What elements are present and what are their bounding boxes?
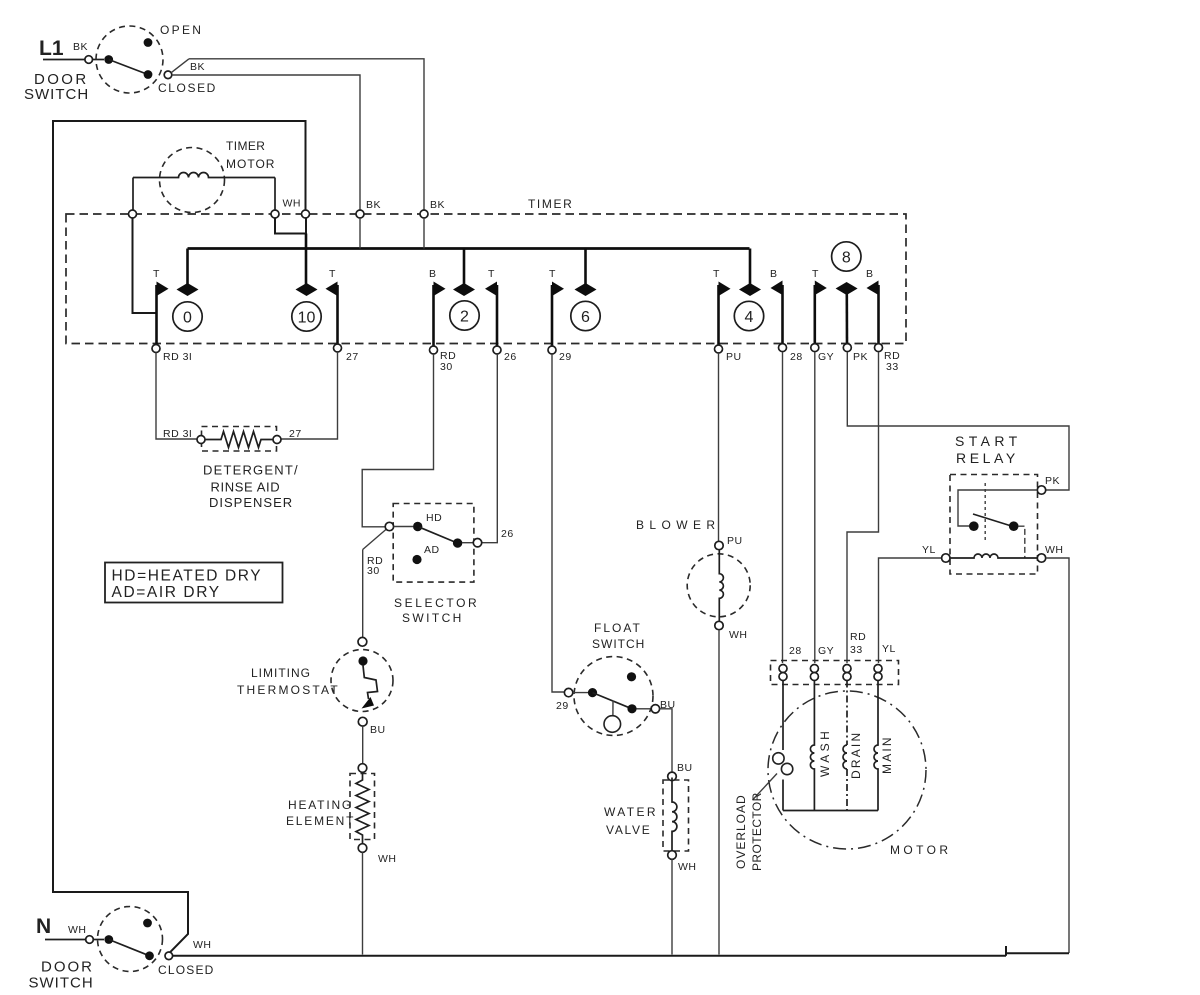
svg-text:YL: YL (882, 643, 896, 655)
svg-text:33: 33 (850, 644, 863, 656)
svg-text:BU: BU (370, 724, 386, 736)
svg-text:OVERLOAD: OVERLOAD (734, 794, 748, 869)
svg-text:33: 33 (886, 361, 899, 373)
svg-text:SWITCH: SWITCH (402, 611, 464, 625)
svg-text:26: 26 (501, 528, 514, 540)
svg-text:27: 27 (289, 428, 302, 440)
svg-text:T: T (713, 268, 720, 280)
svg-text:BK: BK (366, 199, 381, 211)
svg-text:HEATING: HEATING (288, 798, 353, 812)
svg-text:TIMER: TIMER (528, 197, 573, 211)
svg-text:SWITCH: SWITCH (592, 637, 645, 651)
svg-text:WH: WH (378, 853, 397, 865)
svg-text:T: T (329, 268, 336, 280)
svg-text:L1: L1 (39, 37, 64, 60)
svg-text:WH: WH (283, 198, 302, 210)
svg-text:RD 3I: RD 3I (163, 351, 192, 363)
svg-text:29: 29 (556, 700, 569, 712)
svg-text:27: 27 (346, 351, 359, 363)
svg-text:CLOSED: CLOSED (158, 81, 217, 95)
svg-text:B: B (429, 268, 437, 280)
svg-text:10: 10 (298, 310, 316, 327)
svg-text:T: T (488, 268, 495, 280)
svg-text:BK: BK (430, 199, 445, 211)
svg-text:26: 26 (504, 351, 517, 363)
svg-text:N: N (36, 915, 51, 938)
svg-text:28: 28 (790, 351, 803, 363)
svg-text:OPEN: OPEN (160, 23, 203, 37)
svg-text:START: START (955, 433, 1022, 449)
svg-text:4: 4 (745, 309, 754, 326)
svg-text:DETERGENT/: DETERGENT/ (203, 463, 299, 478)
svg-text:SELECTOR: SELECTOR (394, 596, 479, 610)
svg-text:ELEMENT: ELEMENT (286, 814, 355, 828)
svg-text:29: 29 (559, 351, 572, 363)
svg-text:SWITCH: SWITCH (24, 86, 89, 103)
svg-text:DRAIN: DRAIN (849, 731, 863, 779)
svg-text:PK: PK (853, 351, 868, 363)
svg-text:BK: BK (73, 41, 88, 53)
svg-text:CLOSED: CLOSED (158, 963, 215, 977)
svg-text:PU: PU (726, 351, 742, 363)
svg-text:30: 30 (440, 361, 453, 373)
svg-text:VALVE: VALVE (606, 823, 651, 837)
svg-text:MOTOR: MOTOR (890, 843, 951, 857)
svg-text:DISPENSER: DISPENSER (209, 495, 293, 510)
svg-text:HD=HEATED DRY: HD=HEATED DRY (112, 568, 263, 585)
svg-text:28: 28 (789, 645, 802, 657)
svg-text:RD: RD (850, 631, 866, 643)
svg-text:MAIN: MAIN (880, 735, 894, 774)
svg-text:WH: WH (193, 939, 212, 951)
svg-text:THERMOSTAT: THERMOSTAT (237, 683, 340, 697)
svg-text:SWITCH: SWITCH (29, 975, 94, 992)
svg-text:WH: WH (68, 924, 87, 936)
svg-text:T: T (549, 268, 556, 280)
svg-text:AD: AD (424, 544, 440, 556)
svg-text:B: B (770, 268, 778, 280)
svg-text:T: T (812, 268, 819, 280)
svg-text:2: 2 (460, 309, 469, 326)
svg-text:TIMER: TIMER (226, 139, 265, 153)
svg-text:PROTECTOR: PROTECTOR (750, 792, 764, 871)
svg-text:RD 3I: RD 3I (163, 428, 192, 440)
svg-text:RINSE AID: RINSE AID (211, 480, 281, 495)
svg-text:WASH: WASH (818, 728, 832, 777)
svg-text:RELAY: RELAY (956, 450, 1019, 466)
svg-text:BK: BK (190, 61, 205, 73)
svg-text:8: 8 (842, 250, 851, 267)
svg-text:GY: GY (818, 351, 834, 363)
svg-text:B: B (866, 268, 874, 280)
svg-text:AD=AIR DRY: AD=AIR DRY (112, 584, 221, 601)
svg-text:PK: PK (1045, 475, 1060, 487)
svg-text:BLOWER: BLOWER (636, 518, 720, 532)
svg-text:HD: HD (426, 512, 442, 524)
svg-text:6: 6 (581, 309, 590, 326)
svg-text:WH: WH (729, 629, 748, 641)
svg-text:YL: YL (922, 544, 936, 556)
svg-text:30: 30 (367, 565, 380, 577)
svg-text:DOOR: DOOR (41, 959, 94, 976)
svg-text:FLOAT: FLOAT (594, 621, 642, 635)
svg-text:MOTOR: MOTOR (226, 157, 275, 171)
svg-text:WH: WH (678, 861, 697, 873)
svg-text:PU: PU (727, 535, 743, 547)
svg-text:GY: GY (818, 645, 834, 657)
svg-text:WH: WH (1045, 544, 1064, 556)
svg-text:T: T (153, 268, 160, 280)
svg-text:LIMITING: LIMITING (251, 666, 311, 680)
svg-text:WATER: WATER (604, 805, 658, 819)
svg-text:BU: BU (677, 762, 693, 774)
svg-text:0: 0 (183, 310, 192, 327)
